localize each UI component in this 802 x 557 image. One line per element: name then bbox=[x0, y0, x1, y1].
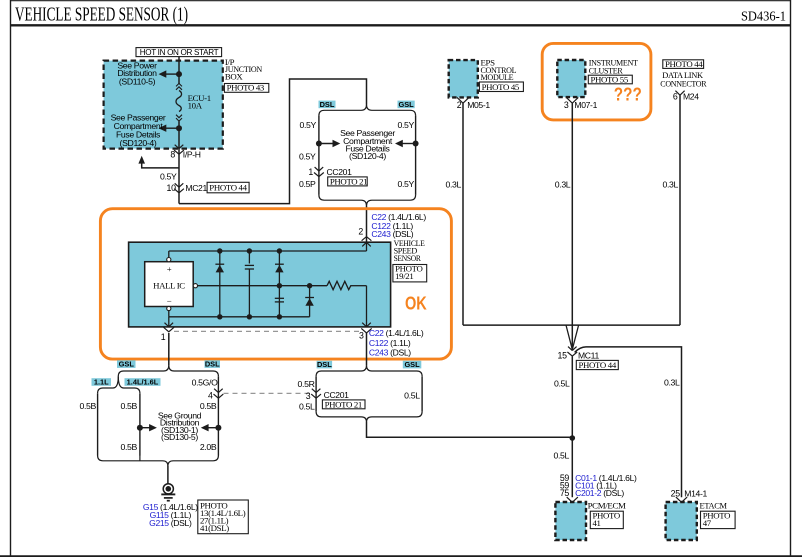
svg-text:DSL: DSL bbox=[320, 100, 335, 109]
svg-text:C122 (1.1L): C122 (1.1L) bbox=[369, 338, 411, 348]
svg-text:CONNECTOR: CONNECTOR bbox=[660, 79, 706, 89]
svg-text:M05-1: M05-1 bbox=[467, 100, 490, 110]
svg-text:OK: OK bbox=[405, 293, 427, 314]
svg-text:0.5Y: 0.5Y bbox=[160, 171, 177, 181]
svg-text:2: 2 bbox=[358, 227, 363, 237]
svg-text:2: 2 bbox=[457, 100, 462, 110]
svg-text:0.3L: 0.3L bbox=[662, 179, 678, 189]
svg-text:41(DSL): 41(DSL) bbox=[200, 523, 229, 533]
svg-text:2.0B: 2.0B bbox=[200, 442, 217, 452]
svg-text:PHOTO 44: PHOTO 44 bbox=[209, 183, 247, 193]
svg-text:25: 25 bbox=[671, 488, 681, 498]
svg-text:CC201: CC201 bbox=[324, 390, 350, 400]
svg-text:0.3L: 0.3L bbox=[555, 179, 571, 189]
svg-text:(SD120-4): (SD120-4) bbox=[349, 151, 386, 161]
svg-text:1.4L/1.6L: 1.4L/1.6L bbox=[127, 378, 159, 387]
svg-text:(SD120-4): (SD120-4) bbox=[120, 138, 157, 148]
svg-text:DSL: DSL bbox=[205, 360, 220, 369]
svg-text:C22 (1.4L/1.6L): C22 (1.4L/1.6L) bbox=[369, 328, 424, 338]
svg-text:???: ??? bbox=[614, 83, 642, 104]
svg-text:0.5Y: 0.5Y bbox=[299, 152, 316, 162]
svg-text:BOX: BOX bbox=[225, 71, 244, 81]
svg-text:1: 1 bbox=[308, 167, 313, 177]
svg-text:GSL: GSL bbox=[404, 360, 420, 369]
svg-text:HOT IN ON OR START: HOT IN ON OR START bbox=[140, 47, 220, 57]
svg-text:M24: M24 bbox=[683, 92, 699, 102]
svg-text:47: 47 bbox=[703, 518, 712, 528]
svg-text:M07-1: M07-1 bbox=[574, 100, 597, 110]
svg-text:0.5Y: 0.5Y bbox=[398, 120, 415, 130]
svg-text:MODULE: MODULE bbox=[481, 72, 514, 82]
svg-text:41: 41 bbox=[593, 518, 601, 528]
svg-text:10A: 10A bbox=[188, 101, 203, 111]
svg-text:−: − bbox=[167, 296, 172, 306]
svg-text:3: 3 bbox=[359, 331, 364, 341]
svg-text:PCM/ECM: PCM/ECM bbox=[588, 501, 627, 511]
svg-text:0.5P: 0.5P bbox=[299, 179, 316, 189]
svg-text:3: 3 bbox=[564, 100, 569, 110]
svg-text:GSL: GSL bbox=[398, 100, 414, 109]
svg-text:0.5Y: 0.5Y bbox=[398, 179, 415, 189]
svg-text:15: 15 bbox=[558, 351, 568, 361]
svg-text:PHOTO 43: PHOTO 43 bbox=[227, 82, 265, 92]
svg-text:0.5B: 0.5B bbox=[200, 401, 217, 411]
svg-text:M14-1: M14-1 bbox=[684, 488, 707, 498]
svg-text:1.1L: 1.1L bbox=[94, 378, 109, 387]
svg-text:(SD110-5): (SD110-5) bbox=[119, 76, 156, 86]
svg-text:(SD130-5): (SD130-5) bbox=[161, 432, 198, 442]
svg-text:PHOTO 45: PHOTO 45 bbox=[482, 82, 520, 92]
svg-text:+: + bbox=[167, 264, 172, 274]
svg-text:GSL: GSL bbox=[119, 360, 135, 369]
svg-text:1: 1 bbox=[161, 332, 166, 342]
svg-text:PHOTO 21: PHOTO 21 bbox=[325, 399, 362, 409]
svg-text:C201-2 (DSL): C201-2 (DSL) bbox=[575, 488, 624, 498]
svg-text:G215 (DSL): G215 (DSL) bbox=[149, 518, 192, 528]
svg-text:8: 8 bbox=[170, 150, 175, 160]
svg-text:0.5Y: 0.5Y bbox=[300, 120, 317, 130]
svg-text:DSL: DSL bbox=[317, 360, 332, 369]
svg-text:0.5B: 0.5B bbox=[80, 401, 97, 411]
svg-text:0.5L: 0.5L bbox=[299, 402, 315, 412]
svg-text:VEHICLE SPEED SENSOR (1): VEHICLE SPEED SENSOR (1) bbox=[15, 4, 188, 26]
svg-text:0.3L: 0.3L bbox=[445, 179, 461, 189]
svg-text:19/21: 19/21 bbox=[395, 271, 413, 281]
svg-text:PHOTO 44: PHOTO 44 bbox=[665, 59, 703, 69]
svg-text:0.5R: 0.5R bbox=[298, 379, 315, 389]
svg-text:0.5B: 0.5B bbox=[121, 401, 138, 411]
svg-text:I/P-H: I/P-H bbox=[183, 150, 201, 160]
svg-text:0.5L: 0.5L bbox=[404, 390, 420, 400]
svg-text:0.3L: 0.3L bbox=[664, 378, 680, 388]
svg-text:SENSOR: SENSOR bbox=[394, 253, 421, 263]
svg-text:C243 (DSL): C243 (DSL) bbox=[369, 347, 411, 357]
svg-text:SD436-1: SD436-1 bbox=[741, 10, 786, 25]
svg-text:0.5L: 0.5L bbox=[553, 451, 569, 461]
svg-text:75: 75 bbox=[560, 488, 570, 498]
svg-text:HALL IC: HALL IC bbox=[153, 280, 185, 290]
svg-text:0.5B: 0.5B bbox=[121, 442, 138, 452]
svg-text:6: 6 bbox=[673, 92, 678, 102]
svg-text:PHOTO 21: PHOTO 21 bbox=[330, 176, 367, 186]
svg-text:3: 3 bbox=[306, 391, 311, 401]
svg-text:ETACM: ETACM bbox=[700, 501, 728, 511]
svg-text:PHOTO 44: PHOTO 44 bbox=[579, 360, 617, 370]
svg-text:10: 10 bbox=[167, 183, 177, 193]
svg-text:0.5G/O: 0.5G/O bbox=[192, 378, 218, 388]
svg-text:MC21: MC21 bbox=[185, 183, 207, 193]
svg-text:0.5L: 0.5L bbox=[554, 379, 570, 389]
svg-text:4: 4 bbox=[208, 391, 213, 401]
